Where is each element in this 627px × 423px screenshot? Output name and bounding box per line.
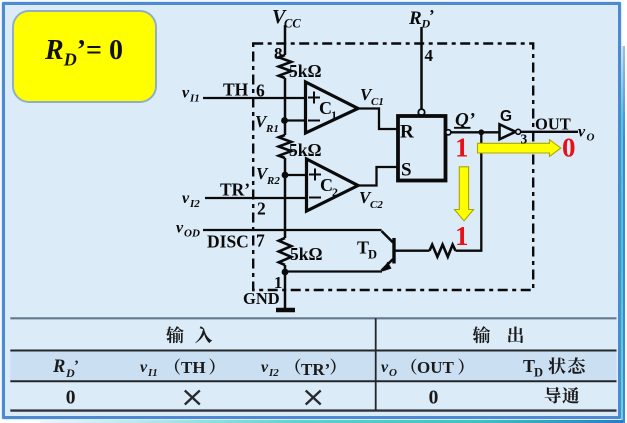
wire DISC line to transistor collector (203, 229, 382, 231)
svg-text:I1: I1 (189, 93, 200, 105)
svg-text:2: 2 (257, 199, 266, 219)
svg-text:TR’: TR’ (301, 360, 330, 379)
svg-text:R: R (52, 357, 65, 377)
wire v_I1 TH input to comparator C1 + (203, 97, 306, 99)
svg-text:v: v (140, 359, 148, 376)
svg-text:I1: I1 (147, 367, 158, 379)
svg-text:S: S (401, 160, 412, 181)
svg-text:TR’: TR’ (220, 180, 250, 200)
svg-text:0: 0 (66, 387, 76, 408)
callout RD'=0 (12, 10, 157, 103)
table row2 shading (10, 352, 616, 381)
svg-text:C1: C1 (371, 96, 384, 108)
svg-text:3: 3 (521, 132, 528, 147)
svg-text:D: D (368, 248, 377, 262)
wire transistor emitter to ground rail (285, 270, 382, 272)
wire VR2 to comparator C2 + input (285, 174, 307, 176)
wire latch output to inverter G (451, 131, 500, 133)
svg-text:R: R (400, 122, 414, 143)
wire resistor1 to node VR1 (284, 78, 287, 135)
wire resistor3 to ground (284, 265, 287, 310)
svg-text:1: 1 (331, 108, 337, 122)
svg-text:O: O (587, 132, 595, 144)
svg-text:0: 0 (562, 133, 576, 163)
svg-text:R1: R1 (265, 123, 279, 135)
wire VR1 to comparator C1 - input (285, 119, 306, 121)
svg-text:I2: I2 (268, 367, 279, 379)
svg-text:8: 8 (274, 44, 283, 63)
node VR2 (282, 172, 289, 179)
flip-flop U1 RS latch (398, 116, 446, 181)
svg-text:v: v (176, 220, 184, 237)
node VR1 (281, 117, 288, 124)
svg-text:TH: TH (223, 80, 249, 100)
wire v_I2 TR input to comparator C2 - (205, 197, 307, 199)
wire C2 output to S input of latch (358, 167, 398, 186)
resistor 5k (top) (279, 55, 292, 78)
svg-text:5kΩ: 5kΩ (289, 61, 322, 81)
svg-text:OUT: OUT (417, 358, 455, 377)
wire RD' down to latch (420, 27, 423, 109)
svg-text:OD: OD (184, 228, 200, 240)
table column divider (375, 318, 377, 410)
latch output bubble (446, 130, 451, 135)
svg-text:v: v (182, 190, 190, 207)
svg-text:6: 6 (256, 81, 265, 101)
op-amp comparator C1 (306, 82, 359, 133)
op-amp comparator C2 (307, 159, 359, 211)
svg-text:O: O (389, 367, 397, 379)
svg-text:1: 1 (455, 133, 469, 163)
svg-text:v: v (578, 124, 586, 141)
table horizontal lines (10, 317, 616, 319)
svg-text:G: G (500, 108, 512, 125)
yellow arrow down to transistor (455, 167, 474, 221)
ground symbol (276, 308, 295, 312)
svg-text:v: v (182, 85, 190, 102)
wire C1 output to R input of latch (358, 109, 398, 130)
svg-text:v: v (381, 359, 389, 376)
svg-text:CC: CC (284, 17, 301, 31)
svg-text:TH: TH (181, 358, 206, 377)
wire inverter to OUT terminal (521, 131, 578, 133)
svg-text:v: v (261, 359, 269, 376)
junction node on Q' line (478, 129, 484, 135)
svg-text:D: D (534, 366, 543, 380)
svg-text:5kΩ: 5kΩ (290, 244, 323, 264)
svg-text:1: 1 (455, 221, 469, 251)
IC internal dashed boundary box (253, 44, 533, 291)
svg-text:R2: R2 (266, 175, 280, 187)
wire node VR2 down across DISC line (284, 158, 287, 238)
resistor base (discharge path) (430, 245, 456, 257)
yellow arrow to output (478, 140, 561, 157)
svg-text:’: ’ (74, 358, 79, 374)
wire Vcc rail down to resistor chain (284, 25, 287, 55)
svg-text:7: 7 (256, 231, 265, 251)
svg-text:GND: GND (243, 289, 280, 308)
svg-text:DISC: DISC (207, 232, 249, 252)
node junction at emitter/ground rail (282, 269, 289, 276)
table header input (166, 326, 183, 343)
latch reset bubble (418, 109, 424, 115)
svg-text:R: R (408, 8, 422, 29)
resistor 5k (middle) (279, 135, 292, 158)
svg-text:’: ’ (429, 6, 435, 25)
svg-text:C2: C2 (370, 199, 383, 211)
svg-text:4: 4 (425, 46, 434, 65)
resistor 5k (bottom) (279, 238, 292, 265)
svg-text:0: 0 (429, 387, 439, 408)
table header output (473, 326, 490, 343)
wire Q' down to discharge resistor (456, 132, 482, 250)
wire transistor base (394, 250, 430, 252)
svg-text:2: 2 (332, 185, 338, 199)
svg-text:I2: I2 (189, 198, 200, 210)
svg-text:OUT: OUT (535, 115, 571, 134)
